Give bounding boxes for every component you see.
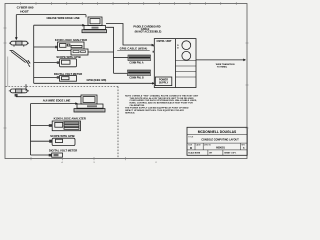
wire branch to logic analyzer LA1 bbox=[34, 46, 58, 48]
instrument SCOPE1 bbox=[60, 59, 77, 67]
transceiver T1 bbox=[9, 41, 29, 46]
wire instrument bus vertical site 1 bbox=[33, 25, 35, 83]
svg-text:TITLE: TITLE bbox=[188, 136, 194, 138]
title block row dividers bbox=[187, 134, 247, 150]
instrument SCOPE2 bbox=[52, 138, 75, 145]
workstation W2 monitor bbox=[81, 95, 97, 104]
connector panel A (striped) bbox=[128, 55, 151, 61]
wire drop to workstation 1 monitor bbox=[85, 15, 87, 18]
wire instrument bus to workstation W2 bbox=[31, 103, 76, 105]
svg-text:600001: 600001 bbox=[216, 145, 225, 149]
svg-text:GPIB CABLE (W204): GPIB CABLE (W204) bbox=[120, 47, 148, 51]
note paragraph bbox=[125, 94, 199, 114]
svg-text:CONSOLE COMPUTING LAYOUT: CONSOLE COMPUTING LAYOUT bbox=[201, 139, 239, 142]
connector at DVM2 bbox=[49, 154, 52, 157]
svg-text:SCOPE WITH GPIB: SCOPE WITH GPIB bbox=[56, 55, 80, 59]
connector at LA2 bbox=[49, 124, 52, 127]
tape reel lower bbox=[182, 51, 191, 60]
workstation W1 keyboard bbox=[82, 30, 107, 33]
node CYBER 860 HOST bbox=[17, 6, 34, 14]
transceiver T2 bbox=[9, 89, 29, 93]
workstation W1 monitor bbox=[88, 17, 102, 26]
svg-text:SUPPLY: SUPPLY bbox=[159, 82, 169, 85]
connector below transceiver T2 bbox=[15, 94, 18, 97]
svg-text:AUI WIRE EDGE LINE: AUI WIRE EDGE LINE bbox=[43, 98, 71, 102]
module GPIB interface on LA1 bbox=[71, 49, 88, 55]
svg-text:10BASE WIRE EDGE LINE: 10BASE WIRE EDGE LINE bbox=[46, 16, 80, 20]
arrowhead into workstation W1 bbox=[82, 24, 85, 27]
wire T2 to workstation W2 bbox=[16, 96, 81, 98]
wire 10base trunk horizontal bbox=[16, 14, 86, 16]
cabinet left edge notches bbox=[153, 45, 155, 47]
power supply box bbox=[155, 77, 172, 86]
wire branch to DVM1 bbox=[34, 76, 60, 78]
label DD bbox=[177, 45, 179, 49]
arrow wire transition to panel bbox=[196, 59, 244, 61]
wire workstation W1 to GPIB chain (lower) bbox=[106, 27, 114, 73]
connector panel B (striped) bbox=[128, 70, 151, 76]
cabinet U1 outline bbox=[154, 39, 196, 88]
wire GPIB bus to workstation W1 bbox=[34, 24, 83, 26]
connector plug at end of AUI drop bbox=[26, 60, 30, 67]
connector stub below transceiver T1 bbox=[10, 50, 13, 52]
border zone marks right bbox=[246, 43, 249, 128]
dashed site boundary vertical bbox=[117, 87, 119, 159]
workstation W1 system unit bbox=[84, 26, 106, 30]
workstation W2 system unit bbox=[77, 104, 103, 108]
connector at LA1 bbox=[55, 46, 58, 48]
cable AUI drop diagonal bbox=[11, 50, 27, 62]
wire branch to SCOPE1 bbox=[34, 62, 60, 64]
border frame bbox=[5, 4, 247, 159]
svg-text:K1500 LOGIC ANALYZER: K1500 LOGIC ANALYZER bbox=[54, 116, 86, 120]
tape reel upper bbox=[182, 41, 191, 50]
connector at SCOPE2 bbox=[49, 140, 52, 143]
workstation W2 keyboard bbox=[74, 109, 105, 112]
svg-text:WIRE TRANSITION: WIRE TRANSITION bbox=[216, 63, 235, 66]
wire coax continuation left bbox=[7, 57, 9, 87]
instrument LA1 K1500 logic analyzer bbox=[58, 42, 85, 51]
wire branch to DVM2 bbox=[31, 154, 52, 156]
wire coax drop to transceiver T2 bbox=[25, 84, 27, 91]
border tick marks top bbox=[21, 2, 237, 5]
instrument DVM1 bbox=[60, 76, 77, 82]
svg-text:MCDONNELL DOUGLAS: MCDONNELL DOUGLAS bbox=[198, 130, 237, 134]
instrument LA2 K1500 logic analyzer bbox=[52, 121, 80, 131]
svg-text:HOST: HOST bbox=[20, 9, 29, 13]
svg-text:CNTRL UNIT: CNTRL UNIT bbox=[157, 40, 172, 43]
svg-text:SHEET 1 OF 1: SHEET 1 OF 1 bbox=[224, 153, 236, 155]
wire instrument bus vertical site 2 bbox=[30, 104, 32, 155]
border zone marks left bbox=[4, 28, 7, 128]
arrowhead into cabinet bbox=[152, 44, 155, 47]
title block column dividers bbox=[195, 143, 241, 155]
label WIRE TRANSITION TO PANEL bbox=[216, 63, 235, 69]
connector at DVM1 bbox=[57, 76, 60, 78]
svg-text:(W NOT ACCESSIBLE): (W NOT ACCESSIBLE) bbox=[135, 31, 162, 34]
dashed site boundary horizontal bbox=[6, 86, 119, 88]
svg-text:DWG NO: DWG NO bbox=[204, 144, 212, 146]
connector at SCOPE1 bbox=[57, 61, 60, 63]
cabinet slats bbox=[176, 61, 197, 78]
svg-text:CONN PNL B: CONN PNL B bbox=[129, 78, 144, 80]
wire branch to SCOPE2 bbox=[31, 140, 53, 142]
zone numbers bottom bbox=[61, 161, 157, 164]
label POWER SUPPLY bbox=[159, 79, 169, 85]
arrowhead into workstation W2 bbox=[75, 102, 78, 105]
svg-text:DIGITAL VOLT METER: DIGITAL VOLT METER bbox=[49, 149, 77, 153]
wire underline of GPIB cable label bbox=[117, 50, 150, 52]
arrowhead wire transition bbox=[243, 59, 246, 62]
wire LA1 GPIB module to panel riser bbox=[88, 51, 114, 53]
border tick marks bottom bbox=[31, 157, 126, 160]
svg-text:CONN PNL A: CONN PNL A bbox=[129, 62, 144, 65]
svg-text:CAGE: CAGE bbox=[196, 143, 202, 146]
title block outline bbox=[187, 127, 247, 155]
wire branch to LA2 bbox=[31, 124, 53, 126]
svg-text:SCOPE WITH GPIB: SCOPE WITH GPIB bbox=[50, 134, 74, 138]
wire GPIB IEEE-488 run to power supply bbox=[34, 82, 153, 84]
cabinet divider bbox=[175, 39, 177, 88]
wire branch to connector panel B bbox=[114, 72, 128, 74]
svg-text:SERVICE.: SERVICE. bbox=[125, 112, 135, 114]
svg-text:SCALE NONE: SCALE NONE bbox=[188, 152, 201, 155]
wire trunk drop to transceiver T1 bbox=[15, 15, 17, 38]
arrowhead into transceiver T1 bbox=[15, 37, 18, 40]
wire workstation W1 to cabinet (upper) bbox=[106, 24, 153, 46]
wire branch to connector panel A bbox=[114, 56, 129, 58]
label paddle cable note bbox=[133, 25, 161, 33]
svg-text:TO PANEL: TO PANEL bbox=[217, 66, 228, 69]
label SCALE row bbox=[188, 152, 236, 155]
svg-text:GPIB (IEEE 488): GPIB (IEEE 488) bbox=[87, 78, 107, 82]
instrument DVM2 bbox=[52, 153, 63, 157]
